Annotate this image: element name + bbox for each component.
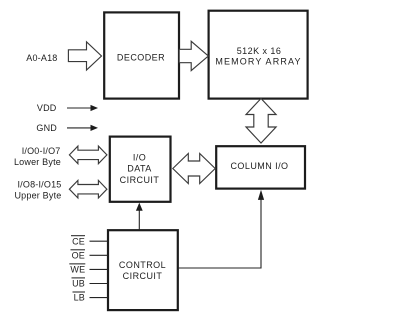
svg-text:CIRCUIT: CIRCUIT <box>123 271 163 281</box>
wire WE <box>90 268 108 270</box>
label CE <box>71 236 85 247</box>
signal arrow VDD <box>67 105 98 111</box>
block COLUMN I/O <box>216 146 305 188</box>
svg-text:I/O: I/O <box>133 152 146 162</box>
block CONTROL CIRCUIT <box>108 230 178 310</box>
svg-text:DATA: DATA <box>127 164 151 174</box>
svg-text:OE: OE <box>72 250 85 260</box>
svg-text:I/O0-I/O7: I/O0-I/O7 <box>22 146 61 156</box>
wire UB <box>90 283 108 285</box>
bidirectional bus arrow lower byte <box>69 146 107 164</box>
bidirectional bus arrow upper byte <box>69 180 107 198</box>
block MEMORY ARRAY <box>209 11 308 99</box>
bus arrow decoder to memory array <box>179 41 208 70</box>
svg-text:LB: LB <box>74 293 85 303</box>
svg-text:DECODER: DECODER <box>117 53 165 63</box>
svg-text:COLUMN I/O: COLUMN I/O <box>230 161 288 171</box>
label OE <box>71 250 86 261</box>
label I/O0-I/O7 Lower Byte <box>14 146 61 167</box>
svg-text:CIRCUIT: CIRCUIT <box>120 175 160 185</box>
svg-text:GND: GND <box>36 123 57 133</box>
svg-text:VDD: VDD <box>37 103 57 113</box>
label WE <box>69 264 85 275</box>
bus arrow A0-A18 to decoder <box>68 42 101 70</box>
svg-text:UB: UB <box>72 279 85 289</box>
block DECODER <box>104 12 179 98</box>
wire control circuit to column I/O <box>178 190 264 268</box>
label UB <box>72 278 86 289</box>
svg-text:CONTROL: CONTROL <box>119 260 166 270</box>
label LB <box>73 292 86 303</box>
wire OE <box>90 254 108 256</box>
svg-text:Upper Byte: Upper Byte <box>14 191 61 201</box>
bidirectional bus arrow memory array to column I/O <box>246 99 276 144</box>
svg-text:I/O8-I/O15: I/O8-I/O15 <box>17 180 61 190</box>
svg-text:MEMORY ARRAY: MEMORY ARRAY <box>215 57 301 67</box>
label I/O8-I/O15 Upper Byte <box>14 180 61 201</box>
signal arrow GND <box>67 125 98 131</box>
svg-text:Lower Byte: Lower Byte <box>14 157 61 167</box>
svg-text:WE: WE <box>70 265 85 275</box>
svg-text:512K x 16: 512K x 16 <box>237 46 282 56</box>
wire control circuit to I/O data circuit <box>136 203 143 230</box>
wire LB <box>90 297 108 299</box>
block I/O DATA CIRCUIT <box>110 137 171 202</box>
bidirectional bus arrow I/O data circuit to column I/O <box>173 154 215 184</box>
svg-text:A0-A18: A0-A18 <box>26 53 57 63</box>
svg-text:CE: CE <box>72 236 85 246</box>
wire CE <box>90 240 108 242</box>
